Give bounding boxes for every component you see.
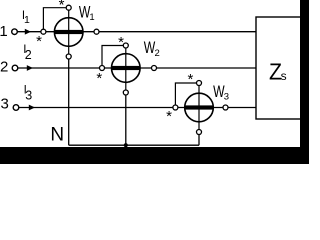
svg-text:1: 1 xyxy=(24,14,30,26)
terminal W2 voltage bottom xyxy=(123,90,128,95)
svg-text:3: 3 xyxy=(224,91,229,102)
W3 current coil bar xyxy=(185,105,214,109)
W2 current coil bar xyxy=(112,66,141,70)
border black strip right xyxy=(300,0,309,164)
terminal W1 voltage bottom xyxy=(66,54,71,59)
border black strip bottom xyxy=(0,147,309,164)
terminal W3 current right xyxy=(223,105,228,110)
svg-text:s: s xyxy=(281,69,287,83)
W2 voltage coil line xyxy=(125,46,127,93)
arrow current I3 xyxy=(29,105,35,111)
terminal W2 current left xyxy=(100,66,105,71)
terminal W3 voltage top xyxy=(197,81,202,86)
wire phase 1 line xyxy=(18,31,256,33)
arrow current I2 xyxy=(27,65,33,71)
wire phase 3 line xyxy=(19,107,256,109)
svg-text:2: 2 xyxy=(25,48,32,62)
svg-text:N: N xyxy=(50,124,64,145)
terminal W2 voltage top xyxy=(123,43,128,48)
wattmeter W1 body circle xyxy=(54,18,83,47)
W1 current coil bar xyxy=(54,30,83,34)
W1 voltage coil line xyxy=(68,8,70,57)
wire W2 voltage coil drop to N xyxy=(125,93,127,146)
svg-text:*: * xyxy=(187,71,193,88)
W3 voltage coil line xyxy=(198,83,200,132)
arrow current I1 xyxy=(25,29,31,35)
wire W1 voltage tap xyxy=(43,8,66,29)
terminal W2 current right xyxy=(152,66,157,71)
wattmeter W3 body circle xyxy=(185,93,214,122)
wire W2 voltage tap xyxy=(102,46,123,66)
terminal W3 voltage bottom / N terminal xyxy=(197,130,202,135)
wire W1 voltage coil drop to N xyxy=(68,57,70,146)
terminal W1 voltage top xyxy=(66,5,71,10)
wattmeter W1 xyxy=(36,0,99,59)
svg-text:*: * xyxy=(59,0,65,14)
terminal W1 current left xyxy=(41,29,46,34)
svg-text:*: * xyxy=(166,108,172,125)
terminal W3 current left xyxy=(173,105,178,110)
svg-text:1: 1 xyxy=(89,12,94,23)
svg-text:*: * xyxy=(96,70,102,87)
terminal phase 1 xyxy=(12,29,18,35)
svg-text:2: 2 xyxy=(0,59,8,76)
svg-text:*: * xyxy=(36,33,42,50)
wattmeter W3 xyxy=(166,71,228,134)
svg-text:2: 2 xyxy=(155,48,160,59)
wire N bus xyxy=(69,144,199,146)
svg-text:1: 1 xyxy=(0,23,8,40)
svg-text:*: * xyxy=(118,34,124,51)
terminal phase 3 xyxy=(13,105,19,111)
wattmeter W2 xyxy=(96,34,156,95)
terminal phase 2 xyxy=(12,65,18,71)
wattmeter W2 body circle xyxy=(124,143,128,147)
svg-text:3: 3 xyxy=(25,89,32,103)
wire phase 2 line xyxy=(18,67,256,69)
terminal W1 current right xyxy=(94,29,99,34)
wire W3 voltage coil drop to N xyxy=(198,132,200,145)
svg-text:3: 3 xyxy=(1,96,9,113)
load box Zs xyxy=(256,17,301,119)
wire W3 voltage tap xyxy=(175,83,196,105)
